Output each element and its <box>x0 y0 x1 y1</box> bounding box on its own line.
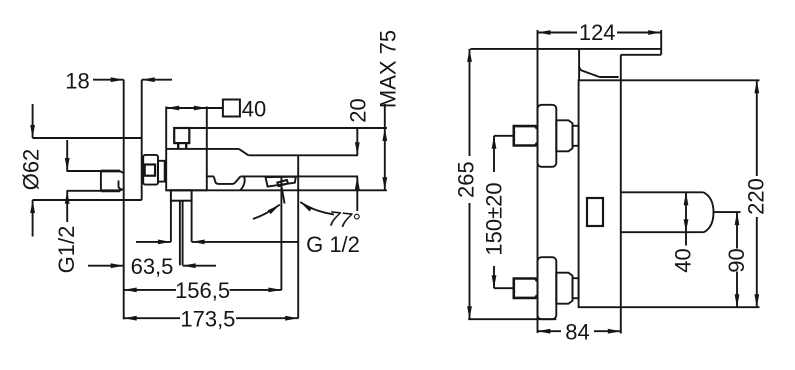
svg-text:G1/2: G1/2 <box>54 226 79 274</box>
top union nut <box>556 120 572 151</box>
union nut <box>143 155 158 185</box>
svg-text:40: 40 <box>242 97 266 122</box>
dim G1/2 wall top line <box>66 140 68 171</box>
dim 40 leader to label <box>207 107 223 109</box>
dim 90 top reference line <box>714 211 741 213</box>
handle pivot right edge <box>620 55 622 81</box>
dim 265 lower line <box>469 203 471 319</box>
svg-text:G 1/2: G 1/2 <box>306 232 360 257</box>
aerator slot <box>214 176 241 184</box>
spout top chamfer <box>239 149 249 155</box>
dim 150±20 top reference <box>494 135 514 137</box>
svg-text:MAX 75: MAX 75 <box>376 30 401 108</box>
dim MAX75 line <box>384 128 386 190</box>
svg-text:124: 124 <box>579 20 616 45</box>
wall pipe G1/2 bottom line <box>67 189 124 191</box>
dim 124 left line <box>538 32 578 34</box>
dim 20 lower line <box>356 177 358 212</box>
square symbol for 40 <box>223 100 240 117</box>
handle top line + 265 extension <box>470 48 661 50</box>
dim 40 right extension <box>206 107 208 149</box>
bottom union pipe stub block <box>514 279 537 298</box>
svg-text:84: 84 <box>565 320 589 345</box>
body (front view) <box>579 80 621 307</box>
spout inner line 2 <box>241 175 359 177</box>
svg-text:156,5: 156,5 <box>175 278 230 303</box>
dim 220 lower line <box>756 217 758 307</box>
spout/body bottom line + MAX75 extension <box>166 189 387 191</box>
handle right edge + 124 extension <box>660 30 662 55</box>
spout inner sweep curve <box>240 176 244 190</box>
spout tube bottom <box>621 231 704 233</box>
spout rounded end cap <box>704 192 714 232</box>
valve tilt indicator line <box>282 188 285 204</box>
dim 156,5 left line <box>124 289 176 291</box>
dim 84 left line <box>537 330 561 332</box>
handle pivot diagonal <box>579 67 599 78</box>
spout base top edge <box>207 148 239 150</box>
flange top edge + Ø62 top extension <box>33 137 142 139</box>
dim 84 right line <box>594 330 621 332</box>
handle stem right leg <box>185 143 187 149</box>
svg-text:20: 20 <box>345 98 370 122</box>
dim 156,5 right line <box>230 289 282 291</box>
dim Ø62 top line <box>32 104 34 138</box>
dim 63,5 right line <box>183 265 216 267</box>
dim G 1/2 outlet right line <box>192 241 299 243</box>
dim MAX75 extension above <box>384 104 386 128</box>
dim 265 upper line <box>469 49 471 156</box>
dim 63,5 left line <box>88 265 124 267</box>
spout tip + 173,5 extension line <box>297 155 299 318</box>
dim 150±20 lower line <box>493 266 495 288</box>
dim 90 lower line <box>736 272 738 308</box>
wall pipe thread bottom <box>101 189 120 192</box>
svg-text:18: 18 <box>65 69 89 94</box>
wall pipe thread top <box>101 170 120 173</box>
svg-text:90: 90 <box>724 248 749 272</box>
body (side view) <box>166 149 207 190</box>
handle stem left leg <box>177 143 179 149</box>
back plane vertical <box>537 30 539 333</box>
diverter valve inner square <box>277 180 288 186</box>
handle knob <box>174 128 189 143</box>
bottom union nut <box>556 273 572 304</box>
handle pivot bottom <box>600 76 619 78</box>
dim 150±20 upper line <box>493 136 495 172</box>
dim 18 line right <box>142 79 172 81</box>
dim G1/2 wall bottom line <box>66 191 68 222</box>
156,5 extension line (valve centre) <box>280 176 282 290</box>
dim 173,5 right line <box>236 317 298 319</box>
outlet collar <box>171 190 192 200</box>
handle bar underside <box>621 54 661 56</box>
union adapter <box>158 161 165 182</box>
svg-text:40: 40 <box>671 248 696 272</box>
dim 40 line <box>166 107 207 109</box>
union nut inner square <box>145 165 155 176</box>
diverter button <box>587 198 603 226</box>
spout top line + 20-dim extension <box>248 154 358 156</box>
dim 124 right line <box>617 32 661 34</box>
svg-text:173,5: 173,5 <box>180 306 235 331</box>
angle leader right <box>300 202 334 215</box>
dim G 1/2 outlet left line <box>136 241 171 243</box>
svg-text:63,5: 63,5 <box>131 254 174 279</box>
dim 40 right-view line <box>685 192 687 232</box>
dim 220 top reference line <box>621 79 760 81</box>
handle pivot left edge <box>578 49 580 80</box>
top union flange <box>538 105 557 167</box>
spout tube top <box>621 191 704 193</box>
top union pipe stub block <box>514 126 537 145</box>
svg-text:265: 265 <box>454 161 479 198</box>
outlet hose right line <box>182 201 184 266</box>
svg-text:Ø62: Ø62 <box>19 149 44 191</box>
top union adapter <box>573 126 579 146</box>
wall line <box>123 80 125 320</box>
svg-text:77°: 77° <box>327 207 361 233</box>
bottom union flange <box>538 257 557 319</box>
dim Ø62 bottom line <box>32 200 34 237</box>
svg-text:220: 220 <box>743 178 768 215</box>
dim 90 upper line <box>736 212 738 248</box>
handle top reference line <box>189 127 387 129</box>
dim 220 upper line <box>756 80 758 176</box>
body bottom reference line (90/220) <box>621 306 760 308</box>
flange front face line <box>141 80 143 200</box>
dim 18 line left <box>93 79 124 81</box>
angle leader left <box>253 205 280 219</box>
flange bottom extension line (265) <box>468 318 556 320</box>
spout inner line <box>207 175 214 177</box>
dim 173,5 left line <box>124 317 180 319</box>
dim 150±20 bottom reference <box>494 287 514 289</box>
wall pipe hook detail <box>119 181 122 190</box>
wall pipe G1/2 top line <box>67 171 124 173</box>
bottom union adapter <box>573 278 579 298</box>
flange bottom edge + Ø62 bottom extension <box>33 199 142 201</box>
svg-text:150±20: 150±20 <box>482 182 507 255</box>
outlet pipe right edge <box>191 201 193 242</box>
outlet pipe left edge <box>170 201 172 242</box>
diverter valve (tilted) <box>266 177 296 187</box>
dim 20 upper line <box>356 128 358 155</box>
dim 40 left extension <box>165 107 167 149</box>
dim 84 right extension <box>620 307 622 333</box>
outlet hose left line <box>179 201 181 266</box>
dim 40 right-view extension below <box>685 232 687 245</box>
wall pipe coupling line <box>100 171 102 191</box>
